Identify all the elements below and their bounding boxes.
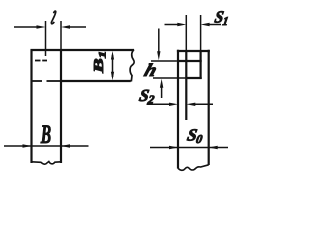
right figure: inner fold line (right) <box>200 51 202 79</box>
dimension B: left arrowhead <box>23 144 32 147</box>
dimension h: lower extension line <box>153 77 185 79</box>
dimension S0: left arrowhead <box>169 146 178 149</box>
left figure: hidden top end of vertical strip dash 2 <box>42 60 47 62</box>
left figure: hidden bottom edge dash 2 <box>47 80 61 82</box>
left figure: hidden bottom edge dash 1 <box>33 80 43 82</box>
dimension l: label l (script ell) <box>51 11 56 24</box>
right figure: inner fold line (left) <box>185 51 187 120</box>
left figure: wavy break line at bottom of vertical strip <box>32 162 62 165</box>
dimension h: down arrowhead <box>157 51 160 60</box>
dimension B1: upper arrowhead <box>111 51 114 60</box>
dimension h: up arrowhead <box>160 79 163 88</box>
dimension h: down arrow <box>158 29 160 53</box>
dimension B: right arrowhead <box>61 144 70 147</box>
left figure: wavy break line at right end of horizontal strip <box>130 50 134 82</box>
dimension S1: left extension line (upper part of inner fold line) <box>185 15 187 51</box>
left figure: vertical strip left edge <box>30 49 32 163</box>
dimension S2: right arrow line <box>195 103 213 105</box>
dimension l: left arrowhead <box>37 25 46 28</box>
dimension S1: left arrow line <box>165 24 179 26</box>
left figure: horizontal strip top edge <box>31 49 135 51</box>
dimension B1: arrow line <box>112 55 114 77</box>
dimension S2: left arrow line <box>147 103 170 105</box>
dimension S2: left arrowhead <box>169 103 178 106</box>
dimension h: up arrow <box>161 87 163 99</box>
right figure: right outer edge <box>208 50 210 165</box>
dimension l: right arrow line <box>69 26 86 28</box>
dimension l: right arrowhead <box>61 25 70 28</box>
left figure: vertical strip right edge upper thin part (l extension) <box>60 21 62 50</box>
dimension S1: right extension line (upper part of inner fold line) <box>200 15 202 51</box>
dimension l: left arrow line <box>14 26 38 28</box>
dimension B: line through strip <box>4 145 89 147</box>
dimension B1: lower arrowhead <box>111 72 114 81</box>
svg-text:B: B <box>40 120 51 149</box>
dimension S2: right arrowhead <box>186 103 195 106</box>
dimension S1: right arrow line <box>209 24 221 26</box>
dimension h: upper extension line <box>151 60 177 62</box>
right figure: left outer edge <box>177 50 179 169</box>
dimension S1: left arrowhead <box>177 23 186 26</box>
dimension S0: line through strip <box>150 147 228 149</box>
right figure: fold bottom line <box>185 77 202 79</box>
left figure: horizontal strip bottom edge (visible part) <box>60 80 131 82</box>
left figure: hidden top end of vertical strip dash 1 <box>35 60 41 62</box>
right figure: fold top line <box>177 60 202 62</box>
right figure: top edge <box>177 50 210 52</box>
dimension l: left extension line <box>45 21 47 56</box>
dimension S1: right arrowhead <box>201 23 210 26</box>
right figure: wavy break line at bottom <box>178 165 209 171</box>
left figure: vertical strip right edge <box>60 50 62 163</box>
dimension S0: right arrowhead <box>209 146 218 149</box>
